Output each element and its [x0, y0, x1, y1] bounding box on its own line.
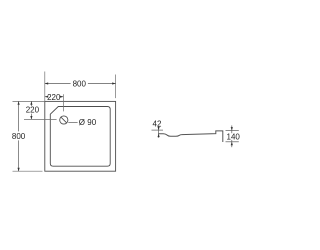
profile 140 up arrow — [231, 142, 233, 145]
svg-text:42: 42 — [153, 120, 162, 129]
extension line from top 220 down to drain centre — [62, 94, 64, 111]
drain slash — [61, 117, 67, 123]
top 220 left arrow — [45, 96, 48, 98]
svg-text:800: 800 — [73, 79, 87, 88]
extension line top-left (for left 800 dim) — [13, 100, 45, 102]
svg-text:220: 220 — [47, 93, 61, 102]
profile 140 lower arrow line — [231, 140, 233, 147]
left 220 top arrow — [30, 101, 32, 104]
profile 42 dimension vertical line — [158, 127, 160, 138]
profile: top level extension tick at left — [152, 129, 164, 131]
top 800 right arrow — [112, 82, 115, 84]
top 220 right arrow — [60, 96, 63, 98]
profile 42 up arrow — [158, 134, 160, 137]
top 800 left arrow — [45, 82, 48, 84]
extension line above top-right corner — [115, 75, 117, 99]
left 800 dimension line — [18, 101, 20, 131]
left 220 bottom arrow — [30, 116, 32, 119]
top 220 dimension line stubs — [45, 96, 47, 98]
profile 42 down arrow — [158, 127, 160, 130]
profile 140 down arrow — [231, 127, 233, 130]
profile 140 top tick — [226, 130, 239, 132]
drain circle — [60, 116, 68, 124]
svg-text:220: 220 — [26, 106, 40, 115]
left 220 dimension line stubs — [30, 101, 32, 106]
extension line bottom-left — [13, 170, 43, 172]
left 800 top arrow — [18, 101, 20, 104]
svg-text:800: 800 — [12, 132, 26, 141]
left 800 bottom arrow — [18, 168, 20, 171]
outer square (tray outer edge, plan view) — [45, 101, 116, 171]
inner tray rim (rounded rect with chamfered top-left corner) — [50, 107, 110, 167]
profile 140 upper arrow line — [231, 125, 233, 133]
extension line left of top-left corner (for 800 top dim) — [44, 72, 46, 102]
top 800 dimension line — [45, 83, 71, 85]
drain leader line — [68, 121, 77, 123]
extension line at drain centre level going left — [24, 118, 57, 120]
svg-text:140: 140 — [227, 132, 241, 141]
svg-text:Ø 90: Ø 90 — [79, 118, 97, 127]
tray profile outline (side view) — [158, 131, 223, 142]
profile 140 bottom tick — [226, 141, 239, 143]
